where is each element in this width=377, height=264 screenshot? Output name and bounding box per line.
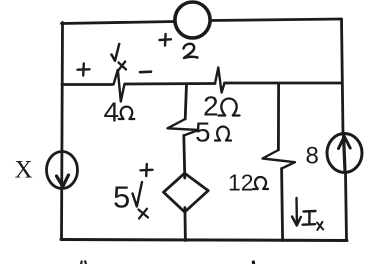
label: ohm of 4ohm <box>119 107 135 119</box>
label: minus polarity of Vx <box>140 70 151 73</box>
wire: center branch, between 5-ohm and dependent source <box>184 136 185 179</box>
label: ohm of 2ohm <box>219 99 240 116</box>
resistor R3 5ohm (zigzag on center branch) <box>168 119 199 136</box>
label: x subscript of 5Vx <box>139 209 149 219</box>
label: x subscript of Ix <box>317 222 323 230</box>
wire: right side, upper segment <box>342 19 344 134</box>
artifact mark bottom-center <box>252 262 255 264</box>
wire: right-center branch, upper (middle rail down to 12-ohm) <box>277 84 280 150</box>
label: V of 5Vx <box>133 182 143 207</box>
wire: middle rail, center segment <box>125 82 215 85</box>
wire: center branch, upper (middle rail down to 5-ohm) <box>185 84 186 119</box>
label: ohm of 5ohm <box>215 127 231 141</box>
wire: top side, right segment <box>211 19 342 21</box>
wire: top side, left segment <box>62 22 176 24</box>
label: + polarity of Vx <box>78 64 90 76</box>
artifact mark bottom-left <box>81 261 86 264</box>
label: + polarity of dependent source <box>141 164 153 176</box>
label: ohm of 12ohm <box>253 177 268 189</box>
current source I8 (circle on right wire) <box>327 134 362 173</box>
label: down arrow of Ix <box>292 198 301 226</box>
label: value 2 of source V1 <box>184 44 198 58</box>
resistor R2 2ohm (zigzag on middle rail) <box>215 68 225 93</box>
wire: center branch, lower (diamond to bottom rail) <box>183 208 186 241</box>
wire: right-center branch, lower (12-ohm to bottom rail) <box>282 169 283 241</box>
svg-text:4: 4 <box>104 97 120 128</box>
wire: left side (top-left corner down to bottom-left corner) <box>62 23 63 240</box>
wire: middle rail, right segment <box>225 82 342 85</box>
wire: middle rail, left segment <box>62 83 112 86</box>
resistor R1 4ohm (zigzag on middle rail) <box>114 70 125 102</box>
wire: bottom side <box>61 240 347 241</box>
wire: right side, lower segment <box>346 173 347 241</box>
svg-text:5: 5 <box>113 180 130 215</box>
svg-text:8: 8 <box>306 143 319 170</box>
svg-text:5: 5 <box>195 117 211 148</box>
wire: through current source I8 <box>344 135 346 172</box>
svg-text:X: X <box>15 157 33 184</box>
resistor R4 12ohm (zigzag on right-center branch) <box>263 150 296 169</box>
label: Vx (voltage across R1) <box>112 44 120 61</box>
arrow (down) inside current source IX <box>57 175 69 187</box>
label: I of Ix <box>303 211 316 225</box>
label: + polarity of source V1 <box>160 34 172 46</box>
arrow (up) inside current source I8 <box>339 137 351 149</box>
dependent source 5Vx (diamond) <box>164 173 209 212</box>
current source IX (circle on left wire) <box>47 152 78 189</box>
voltage source V1 (circle on top wire) <box>175 2 210 38</box>
svg-text:12: 12 <box>228 170 254 196</box>
